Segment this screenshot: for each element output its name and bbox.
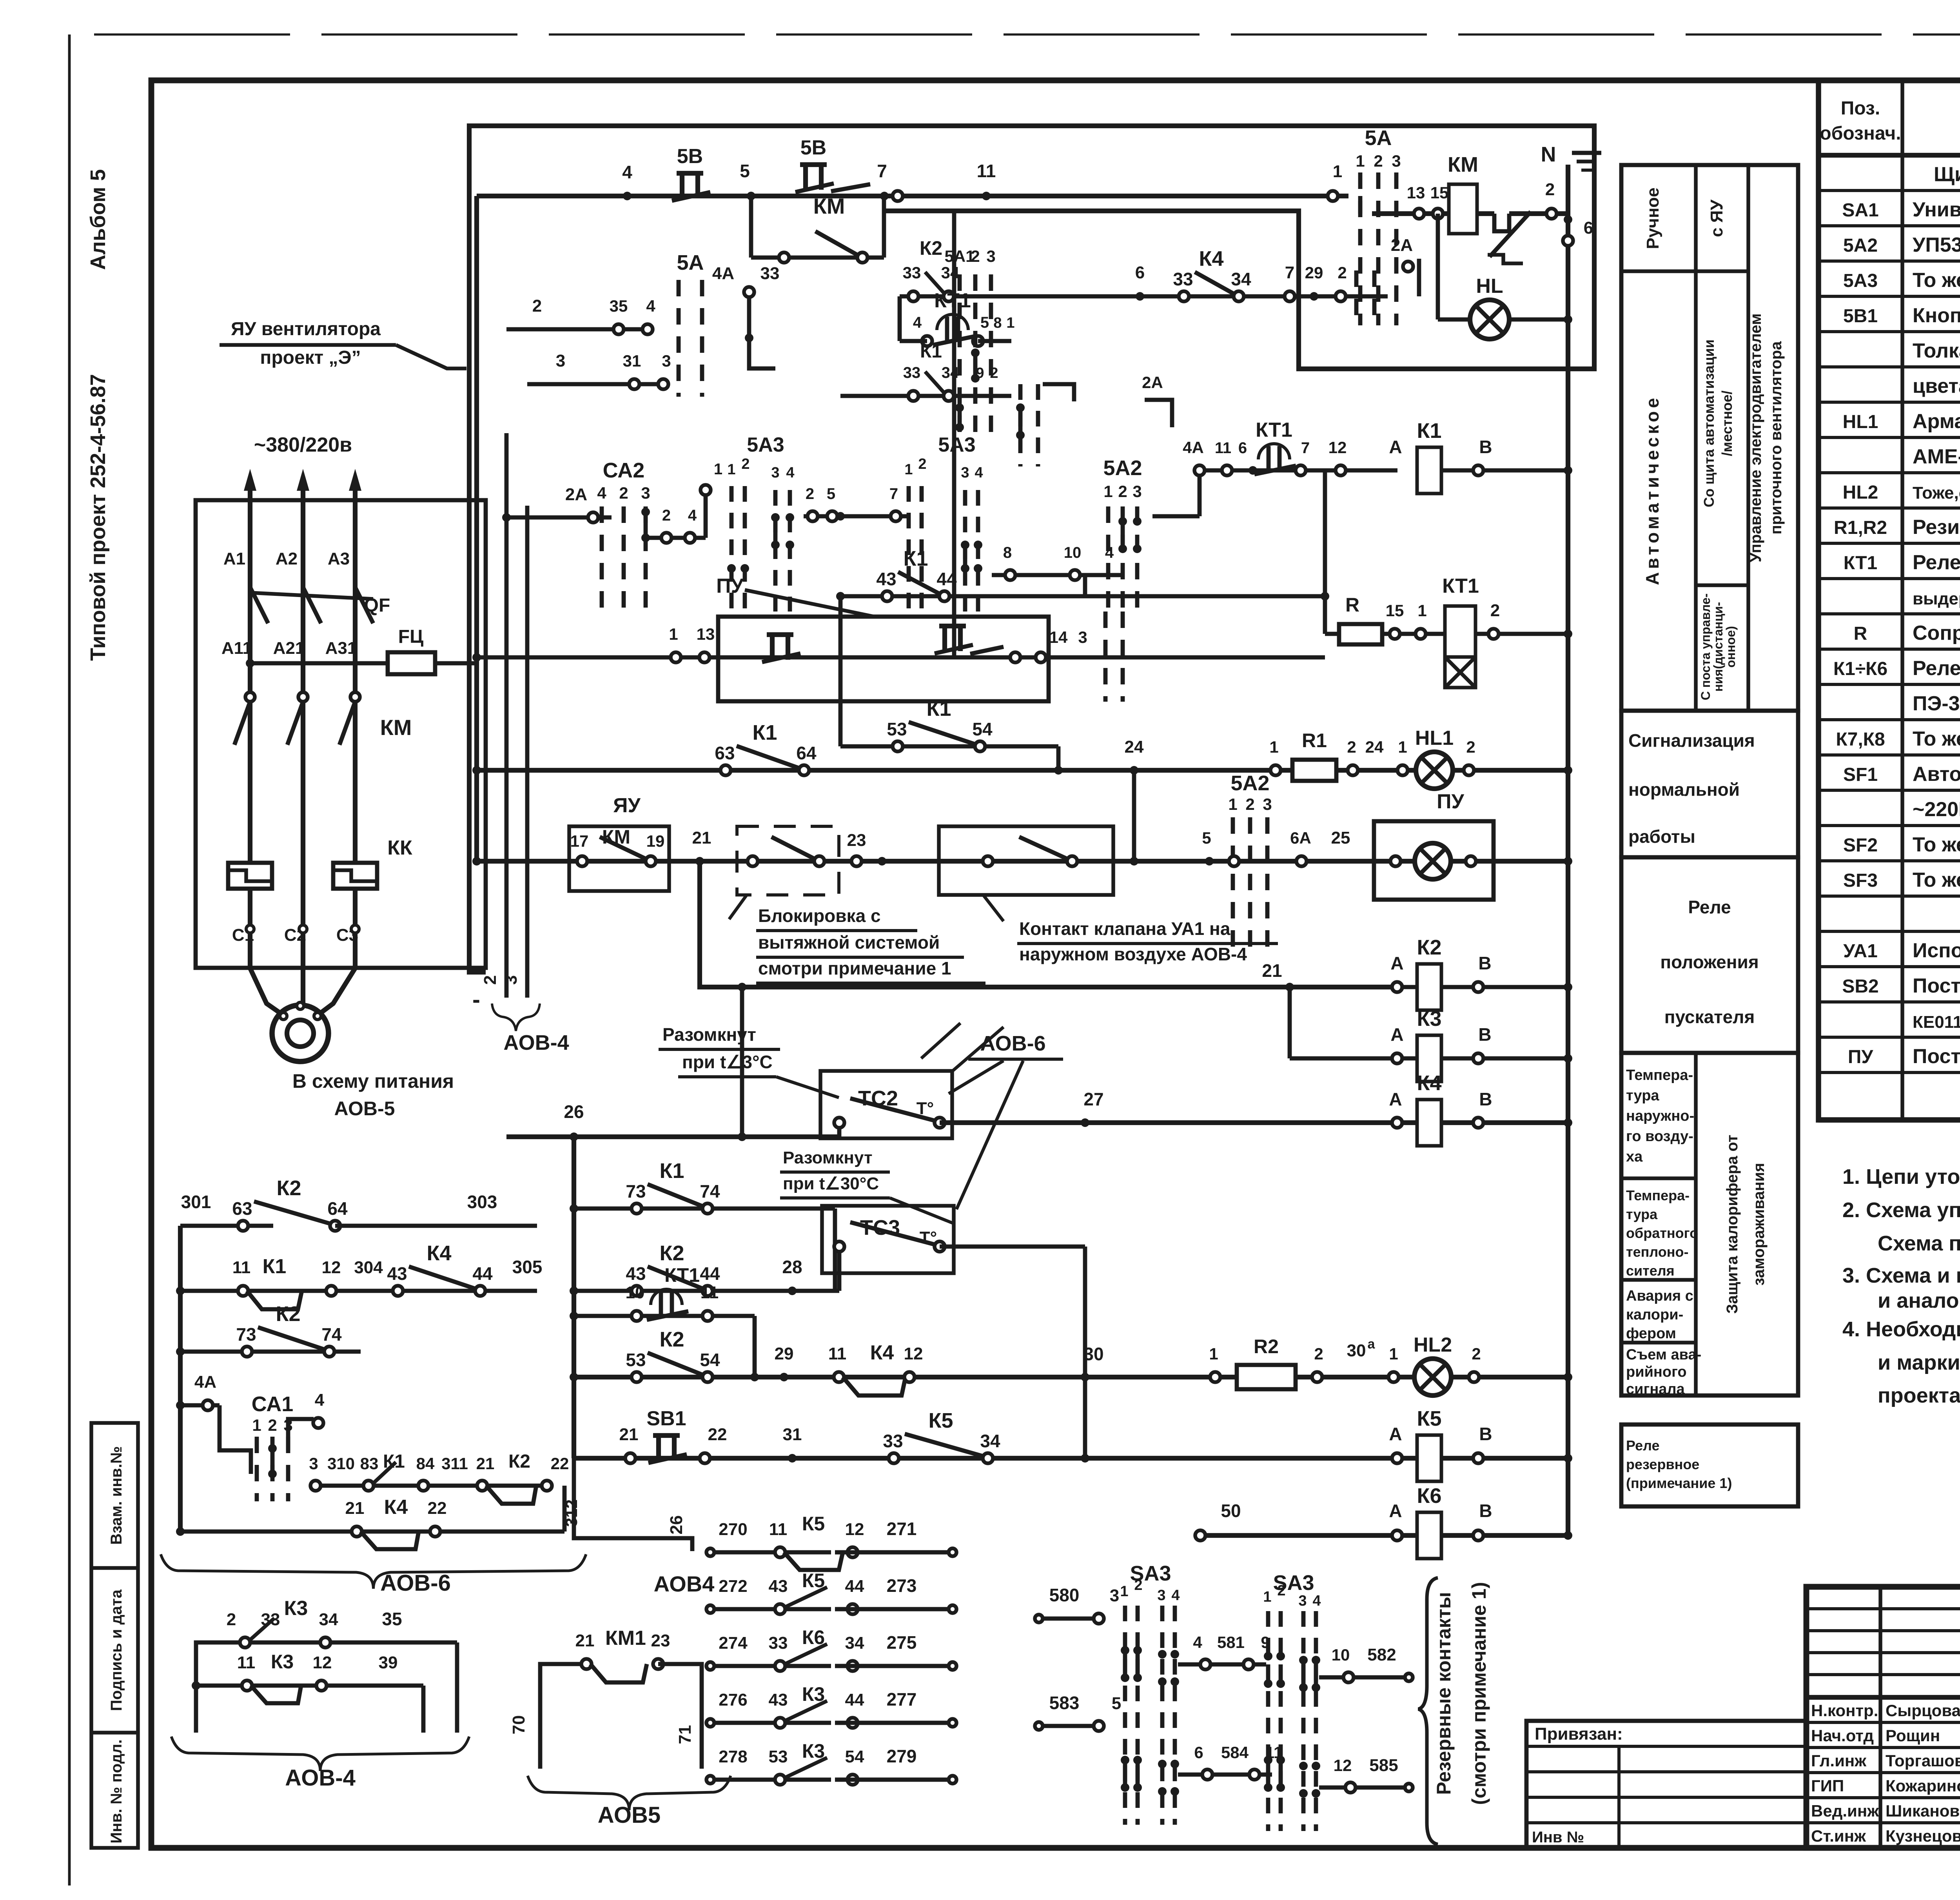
svg-text:Сырцова: Сырцова xyxy=(1886,1701,1960,1720)
svg-text:34: 34 xyxy=(941,263,960,282)
svg-text:12: 12 xyxy=(1328,438,1347,457)
svg-text:2: 2 xyxy=(1277,1582,1285,1599)
svg-text:12: 12 xyxy=(322,1258,341,1277)
svg-text:6А: 6А xyxy=(1290,829,1311,847)
svg-text:АОВ-4: АОВ-4 xyxy=(503,1031,569,1054)
svg-text:4: 4 xyxy=(786,465,794,481)
svg-text:14: 14 xyxy=(1049,628,1068,646)
svg-text:СА2: СА2 xyxy=(603,459,645,482)
svg-text:30: 30 xyxy=(1083,1344,1103,1364)
svg-text:То же, УП5313-А541: То же, УП5313-А541 xyxy=(1913,269,1960,292)
svg-text:54: 54 xyxy=(845,1747,864,1766)
svg-text:ПУ: ПУ xyxy=(716,575,744,597)
svg-text:Толкатель цилиндрический красн: Толкатель цилиндрический красного xyxy=(1913,339,1960,362)
svg-text:27: 27 xyxy=(1083,1089,1103,1109)
svg-text:Блокировка с: Блокировка с xyxy=(758,906,881,926)
svg-text:12: 12 xyxy=(845,1520,864,1539)
svg-text:АМЕ-313211(У2ТУ16.535.582-76: АМЕ-313211(У2ТУ16.535.582-76 xyxy=(1913,445,1960,468)
svg-text:КТ1: КТ1 xyxy=(1442,575,1479,597)
svg-text:43: 43 xyxy=(769,1577,788,1596)
svg-text:1: 1 xyxy=(1333,162,1342,181)
svg-text:К1: К1 xyxy=(263,1255,287,1278)
svg-text:2: 2 xyxy=(918,456,926,472)
svg-text:наружно-: наружно- xyxy=(1626,1108,1694,1124)
svg-text:3: 3 xyxy=(1078,628,1087,646)
svg-text:К2: К2 xyxy=(920,237,942,259)
svg-text:То же , 1,6×10: То же , 1,6×10 xyxy=(1913,833,1960,856)
svg-text:К1: К1 xyxy=(753,721,777,744)
svg-text:2: 2 xyxy=(1545,180,1555,199)
svg-text:5В1: 5В1 xyxy=(1843,306,1878,327)
svg-text:26: 26 xyxy=(667,1515,686,1535)
svg-text:2: 2 xyxy=(1347,738,1356,756)
svg-text:26: 26 xyxy=(564,1102,584,1122)
svg-text:Автоматический выключатель А63: Автоматический выключатель А63МГ xyxy=(1913,763,1960,786)
svg-text:2: 2 xyxy=(662,507,671,524)
svg-text:21: 21 xyxy=(619,1425,639,1444)
svg-text:QF: QF xyxy=(364,595,390,616)
svg-text:HL2: HL2 xyxy=(1843,482,1878,503)
svg-text:7: 7 xyxy=(877,161,887,181)
svg-text:положения: положения xyxy=(1660,952,1759,972)
svg-text:А11: А11 xyxy=(221,639,252,658)
svg-text:К2: К2 xyxy=(1417,936,1442,959)
svg-text:23: 23 xyxy=(651,1631,670,1650)
svg-text:3: 3 xyxy=(1263,795,1272,813)
svg-text:2: 2 xyxy=(1118,482,1127,501)
svg-text:замораживания: замораживания xyxy=(1750,1163,1768,1285)
svg-text:4: 4 xyxy=(646,297,655,315)
svg-text:64: 64 xyxy=(327,1198,348,1219)
svg-text:271: 271 xyxy=(887,1519,917,1539)
svg-text:HL1: HL1 xyxy=(1415,727,1454,749)
svg-text:2: 2 xyxy=(1134,1577,1142,1593)
svg-text:а: а xyxy=(1368,1337,1376,1352)
svg-text:274: 274 xyxy=(719,1633,748,1653)
svg-text:К1: К1 xyxy=(383,1451,405,1472)
svg-text:270: 270 xyxy=(719,1520,747,1539)
svg-text:311: 311 xyxy=(441,1454,468,1473)
svg-text:А: А xyxy=(1389,1424,1402,1444)
svg-text:17: 17 xyxy=(570,832,589,850)
svg-text:Универсальный переключатель: Универсальный переключатель xyxy=(1913,198,1960,221)
svg-text:К1÷К6: К1÷К6 xyxy=(1833,659,1887,679)
svg-text:1: 1 xyxy=(1389,1345,1398,1363)
svg-text:33: 33 xyxy=(883,1431,903,1451)
svg-text:сигнала: сигнала xyxy=(1626,1381,1685,1397)
svg-text:К4: К4 xyxy=(870,1341,894,1364)
svg-text:3: 3 xyxy=(1132,482,1142,501)
svg-text:Сигнализация: Сигнализация xyxy=(1628,730,1755,751)
svg-text:КТ1: КТ1 xyxy=(934,289,971,312)
svg-text:12: 12 xyxy=(1334,1756,1352,1775)
svg-text:Тоже,с красным светофильтром А: Тоже,с красным светофильтром АМЕ-311211У… xyxy=(1913,483,1960,503)
svg-text:Инв №: Инв № xyxy=(1532,1829,1584,1846)
svg-text:Реле: Реле xyxy=(1626,1437,1660,1454)
svg-text:84: 84 xyxy=(416,1454,435,1473)
svg-text:12: 12 xyxy=(313,1653,332,1672)
svg-text:5В: 5В xyxy=(800,136,826,159)
svg-text:15: 15 xyxy=(1430,183,1449,202)
svg-text:5: 5 xyxy=(980,314,989,331)
svg-text:выдержка времени 0,1÷10мин;ТУ1: выдержка времени 0,1÷10мин;ТУ16.647.002-… xyxy=(1913,589,1960,608)
svg-text:35: 35 xyxy=(610,297,628,315)
svg-text:5: 5 xyxy=(740,161,750,181)
svg-text:13: 13 xyxy=(697,625,715,643)
svg-text:А: А xyxy=(1389,1089,1402,1109)
svg-text:43: 43 xyxy=(626,1263,646,1284)
svg-text:К3: К3 xyxy=(271,1651,294,1673)
svg-text:30: 30 xyxy=(1347,1341,1366,1360)
svg-text:12: 12 xyxy=(904,1344,923,1363)
svg-text:3: 3 xyxy=(641,484,650,502)
svg-text:Поз.: Поз. xyxy=(1841,98,1880,119)
svg-text:5В: 5В xyxy=(677,145,703,168)
svg-text:312: 312 xyxy=(562,1499,581,1527)
svg-text:Взам. инв.№: Взам. инв.№ xyxy=(108,1446,125,1544)
svg-text:HL2: HL2 xyxy=(1414,1334,1452,1356)
svg-text:SB2: SB2 xyxy=(1842,976,1878,997)
svg-text:580: 580 xyxy=(1049,1585,1080,1605)
svg-text:5А2: 5А2 xyxy=(1230,771,1269,795)
svg-text:А31: А31 xyxy=(325,639,357,658)
svg-text:Со щита автоматизации: Со щита автоматизации xyxy=(1701,339,1717,507)
svg-text:5А1: 5А1 xyxy=(944,247,975,265)
svg-text:25: 25 xyxy=(1331,828,1350,847)
svg-text:4. Необходимость использовани: 4. Необходимость использования резервных… xyxy=(1842,1317,1960,1341)
svg-text:305: 305 xyxy=(512,1257,543,1277)
svg-text:ПЭ-37-62УЗ ТУ16.523.622-82: ПЭ-37-62УЗ ТУ16.523.622-82 xyxy=(1913,692,1960,715)
svg-text:2А: 2А xyxy=(1391,236,1413,255)
svg-text:Типовой проект 252-4-56.87: Типовой проект 252-4-56.87 xyxy=(86,374,110,661)
svg-text:СА1: СА1 xyxy=(252,1392,294,1416)
svg-text:273: 273 xyxy=(887,1575,917,1596)
svg-text:34: 34 xyxy=(942,364,959,381)
svg-text:К5: К5 xyxy=(802,1513,825,1535)
svg-text:Подпись и дата: Подпись и дата xyxy=(108,1589,125,1711)
svg-text:31: 31 xyxy=(783,1425,802,1444)
svg-text:4: 4 xyxy=(1193,1633,1202,1651)
svg-text:278: 278 xyxy=(719,1747,747,1766)
svg-text:ГИП: ГИП xyxy=(1811,1777,1844,1795)
svg-text:SB1: SB1 xyxy=(646,1407,686,1430)
svg-text:КЕ011 исп.2 „Открыть”,Закрыть”: КЕ011 исп.2 „Открыть”,Закрыть”ф¾,ТУ16.52… xyxy=(1913,1013,1960,1032)
svg-text:21: 21 xyxy=(1262,960,1282,981)
svg-text:FЦ: FЦ xyxy=(398,626,423,647)
svg-text:11: 11 xyxy=(828,1344,847,1363)
svg-text:5: 5 xyxy=(827,485,835,503)
svg-text:34: 34 xyxy=(1231,269,1251,289)
svg-text:КМ: КМ xyxy=(813,194,845,218)
svg-text:К4: К4 xyxy=(384,1496,408,1519)
svg-text:1: 1 xyxy=(714,461,722,478)
svg-text:310: 310 xyxy=(327,1454,355,1473)
svg-text:11: 11 xyxy=(769,1520,788,1539)
svg-text:1: 1 xyxy=(904,461,913,478)
svg-text:3: 3 xyxy=(501,975,521,985)
svg-text:-: - xyxy=(472,986,480,1013)
svg-text:582: 582 xyxy=(1367,1645,1396,1664)
svg-text:1: 1 xyxy=(1398,738,1407,756)
svg-text:2: 2 xyxy=(1338,263,1347,282)
svg-text:С поста управле-: С поста управле- xyxy=(1699,593,1713,700)
svg-text:11: 11 xyxy=(1215,439,1231,457)
svg-text:5А: 5А xyxy=(677,251,704,274)
svg-text:63: 63 xyxy=(232,1198,252,1219)
svg-text:301: 301 xyxy=(181,1192,211,1212)
svg-text:585: 585 xyxy=(1369,1756,1398,1775)
svg-text:резервное: резервное xyxy=(1626,1456,1699,1472)
svg-text:74: 74 xyxy=(321,1324,342,1345)
svg-text:Кожаринова: Кожаринова xyxy=(1886,1777,1960,1795)
svg-text:(смотри примечание 1): (смотри примечание 1) xyxy=(1468,1582,1490,1805)
svg-text:(примечание 1): (примечание 1) xyxy=(1626,1475,1732,1491)
svg-text:272: 272 xyxy=(719,1577,747,1596)
svg-text:АОВ-6: АОВ-6 xyxy=(980,1032,1045,1055)
svg-text:34: 34 xyxy=(980,1431,1000,1451)
svg-text:34: 34 xyxy=(845,1633,864,1653)
svg-text:В: В xyxy=(1478,1024,1491,1045)
svg-text:при t∠3°С: при t∠3°С xyxy=(682,1052,773,1072)
svg-text:К2: К2 xyxy=(276,1302,301,1326)
svg-text:2: 2 xyxy=(741,456,750,472)
svg-text:44: 44 xyxy=(472,1263,493,1284)
svg-text:34: 34 xyxy=(319,1610,338,1629)
svg-text:21: 21 xyxy=(476,1454,495,1473)
svg-text:1: 1 xyxy=(1417,601,1426,620)
svg-text:То же , 1×10: То же , 1×10 xyxy=(1913,869,1960,891)
svg-text:70: 70 xyxy=(509,1715,528,1735)
svg-text:работы: работы xyxy=(1628,826,1695,847)
svg-text:7: 7 xyxy=(889,485,898,503)
svg-text:К1: К1 xyxy=(660,1159,684,1183)
svg-text:33: 33 xyxy=(903,263,921,282)
svg-text:29: 29 xyxy=(1305,263,1323,282)
svg-text:АОВ4: АОВ4 xyxy=(654,1572,715,1596)
svg-text:К5: К5 xyxy=(802,1570,825,1591)
svg-text:35: 35 xyxy=(382,1609,402,1629)
svg-text:R2: R2 xyxy=(1254,1336,1279,1357)
svg-text:2: 2 xyxy=(619,484,628,502)
svg-text:А: А xyxy=(1389,437,1402,457)
svg-text:К4: К4 xyxy=(427,1241,452,1265)
svg-text:К7,К8: К7,К8 xyxy=(1836,729,1885,750)
svg-text:2. Схема управления дана на: 2. Схема управления дана на листах АОВ3÷… xyxy=(1842,1198,1960,1222)
svg-text:Авария с: Авария с xyxy=(1626,1288,1693,1304)
svg-text:Н.контр.: Н.контр. xyxy=(1811,1701,1878,1720)
svg-text:11: 11 xyxy=(701,1283,719,1302)
svg-text:5А3: 5А3 xyxy=(938,434,975,456)
svg-text:ния(дистанци-: ния(дистанци- xyxy=(1711,602,1725,692)
svg-text:Управление электродвигателем: Управление электродвигателем xyxy=(1747,313,1764,562)
svg-text:~380/220в: ~380/220в xyxy=(254,434,352,456)
svg-text:5А: 5А xyxy=(1365,126,1392,150)
svg-text:АОВ-5: АОВ-5 xyxy=(334,1098,395,1120)
svg-text:R: R xyxy=(1345,594,1359,616)
svg-text:44: 44 xyxy=(936,569,957,589)
svg-text:HL1: HL1 xyxy=(1843,412,1878,432)
svg-text:ЯУ: ЯУ xyxy=(613,794,641,817)
svg-text:3: 3 xyxy=(961,465,969,481)
svg-text:1: 1 xyxy=(252,1416,261,1434)
svg-text:43: 43 xyxy=(769,1690,788,1709)
svg-text:2А: 2А xyxy=(565,485,587,504)
svg-text:2: 2 xyxy=(1374,152,1383,170)
svg-text:5: 5 xyxy=(1202,829,1211,847)
svg-text:УП5312-С86 ТУ16.524.074-75: УП5312-С86 ТУ16.524.074-75 xyxy=(1913,234,1960,256)
svg-text:проект „Э”: проект „Э” xyxy=(260,347,361,368)
svg-text:73: 73 xyxy=(626,1181,646,1201)
svg-text:Привязан:: Привязан: xyxy=(1535,1724,1623,1744)
svg-text:К1: К1 xyxy=(904,547,928,570)
svg-text:К4: К4 xyxy=(1417,1071,1442,1095)
svg-text:8: 8 xyxy=(993,315,1002,331)
svg-text:SF2: SF2 xyxy=(1843,835,1878,856)
svg-text:А3: А3 xyxy=(328,549,350,568)
svg-text:6: 6 xyxy=(1135,263,1145,282)
svg-text:К2: К2 xyxy=(660,1328,684,1351)
svg-text:4А: 4А xyxy=(1183,438,1204,457)
svg-text:63: 63 xyxy=(715,743,735,763)
svg-text:приточного вентилятора: приточного вентилятора xyxy=(1768,341,1785,535)
svg-text:5: 5 xyxy=(1112,1694,1121,1713)
svg-text:64: 64 xyxy=(796,743,817,763)
svg-text:50: 50 xyxy=(1221,1501,1241,1521)
svg-text:В: В xyxy=(1479,1089,1492,1109)
svg-text:К1: К1 xyxy=(1417,419,1442,443)
svg-text:7: 7 xyxy=(1301,439,1310,457)
svg-text:Торгашов: Торгашов xyxy=(1886,1751,1960,1770)
svg-text:и аналогичны для П2÷П4.: и аналогичны для П2÷П4. xyxy=(1878,1289,1960,1312)
svg-text:10: 10 xyxy=(626,1283,645,1302)
svg-text:4: 4 xyxy=(1171,1587,1180,1604)
svg-text:Автоматическое: Автоматическое xyxy=(1642,395,1662,585)
svg-text:В: В xyxy=(1478,953,1491,973)
svg-text:К2: К2 xyxy=(277,1176,301,1200)
svg-text:54: 54 xyxy=(972,719,993,739)
svg-text:4: 4 xyxy=(597,484,606,502)
svg-text:6: 6 xyxy=(1238,439,1247,457)
svg-text:5А2: 5А2 xyxy=(1103,456,1142,480)
svg-text:~220В 4×10 ТУ16.522.110-74: ~220В 4×10 ТУ16.522.110-74 xyxy=(1913,798,1960,821)
svg-text:22: 22 xyxy=(551,1454,569,1473)
svg-text:43: 43 xyxy=(876,569,896,589)
svg-text:К6: К6 xyxy=(802,1626,825,1648)
svg-text:HL: HL xyxy=(1476,275,1503,298)
svg-text:5А2: 5А2 xyxy=(1843,235,1878,256)
svg-text:Щит автоматизации ЩА-П1(П2÷П4): Щит автоматизации ЩА-П1(П2÷П4) xyxy=(1934,163,1960,186)
svg-text:43: 43 xyxy=(387,1263,407,1284)
svg-text:7: 7 xyxy=(1285,263,1294,282)
svg-text:рийного: рийного xyxy=(1626,1364,1687,1380)
svg-text:4: 4 xyxy=(315,1390,325,1410)
svg-text:1: 1 xyxy=(1103,482,1112,501)
svg-text:5А3: 5А3 xyxy=(1843,270,1878,291)
svg-text:А2: А2 xyxy=(276,549,298,568)
svg-text:Пост управления ПКЕ-212-2УЗ,с: Пост управления ПКЕ-212-2УЗ,с кнопками xyxy=(1913,974,1960,997)
svg-text:КМ1: КМ1 xyxy=(605,1627,646,1650)
svg-text:Защита калорифера от: Защита калорифера от xyxy=(1724,1135,1741,1314)
svg-text:ха: ха xyxy=(1626,1149,1643,1165)
svg-text:Резервные контакты: Резервные контакты xyxy=(1433,1592,1455,1795)
svg-text:44: 44 xyxy=(845,1577,864,1596)
svg-text:SF1: SF1 xyxy=(1843,764,1878,785)
svg-text:Шиканова: Шиканова xyxy=(1886,1802,1960,1820)
svg-text:304: 304 xyxy=(354,1258,383,1277)
svg-text:К2: К2 xyxy=(508,1451,530,1472)
svg-text:10: 10 xyxy=(1064,544,1082,561)
svg-text:1: 1 xyxy=(1120,1583,1128,1600)
svg-text:смотри примечание 1: смотри примечание 1 xyxy=(758,958,951,978)
svg-text:584: 584 xyxy=(1221,1743,1249,1762)
svg-text:21: 21 xyxy=(575,1631,595,1650)
svg-text:3: 3 xyxy=(1392,152,1401,170)
svg-text:при t∠30°С: при t∠30°С xyxy=(783,1174,879,1193)
svg-text:23: 23 xyxy=(847,831,866,850)
svg-text:К3: К3 xyxy=(1417,1007,1442,1031)
svg-text:го возду-: го возду- xyxy=(1626,1128,1693,1145)
svg-text:28: 28 xyxy=(782,1257,802,1277)
svg-text:10: 10 xyxy=(1332,1646,1350,1664)
svg-text:К6: К6 xyxy=(1417,1484,1442,1508)
svg-text:1: 1 xyxy=(1209,1345,1218,1363)
svg-text:SF3: SF3 xyxy=(1843,870,1878,891)
svg-text:пускателя: пускателя xyxy=(1664,1007,1755,1027)
svg-text:Сопротивление: Сопротивление xyxy=(1913,622,1960,644)
svg-text:33: 33 xyxy=(1173,269,1193,289)
svg-text:теплоно-: теплоно- xyxy=(1626,1244,1689,1260)
svg-text:4А: 4А xyxy=(712,264,734,283)
svg-text:54: 54 xyxy=(700,1350,720,1370)
svg-text:А: А xyxy=(1390,1024,1403,1045)
svg-text:Гл.инж: Гл.инж xyxy=(1811,1751,1867,1770)
svg-text:11: 11 xyxy=(232,1258,251,1277)
svg-text:R1: R1 xyxy=(1302,730,1327,751)
svg-text:Контакт клапана УА1 на: Контакт клапана УА1 на xyxy=(1019,918,1230,939)
svg-text:К1: К1 xyxy=(920,341,942,362)
svg-text:2: 2 xyxy=(806,485,814,503)
svg-text:8: 8 xyxy=(1003,544,1012,561)
svg-text:22: 22 xyxy=(708,1425,727,1444)
svg-text:фером: фером xyxy=(1626,1325,1676,1342)
svg-text:сителя: сителя xyxy=(1626,1263,1675,1279)
svg-text:Схема питания л. АОВ-5.: Схема питания л. АОВ-5. xyxy=(1878,1232,1960,1255)
svg-text:53: 53 xyxy=(769,1747,788,1766)
svg-text:Реле: Реле xyxy=(1688,897,1731,917)
svg-text:71: 71 xyxy=(675,1725,695,1744)
svg-text:КМ: КМ xyxy=(1448,153,1478,176)
svg-text:К5: К5 xyxy=(929,1409,953,1432)
svg-text:24: 24 xyxy=(1365,738,1384,756)
svg-text:обратного: обратного xyxy=(1626,1225,1698,1241)
svg-text:R1,R2: R1,R2 xyxy=(1834,517,1887,538)
svg-text:21: 21 xyxy=(692,828,711,847)
svg-text:33: 33 xyxy=(903,364,921,381)
svg-text:2: 2 xyxy=(532,296,542,316)
svg-text:/местное/: /местное/ xyxy=(1719,390,1735,456)
svg-text:4: 4 xyxy=(913,314,922,331)
svg-text:1: 1 xyxy=(727,461,735,478)
svg-text:2: 2 xyxy=(481,975,500,985)
svg-text:калори-: калори- xyxy=(1626,1307,1683,1323)
svg-text:Кнопка управления КЕ-011 исп.2: Кнопка управления КЕ-011 исп.2 xyxy=(1913,304,1960,327)
svg-text:2: 2 xyxy=(1490,601,1500,620)
svg-text:1: 1 xyxy=(1263,1589,1271,1605)
svg-text:Исполнительный механизм: Исполнительный механизм xyxy=(1913,939,1960,962)
svg-text:Реле времени ВЛ-56 ~220в 50Гц: Реле времени ВЛ-56 ~220в 50Гц; xyxy=(1913,551,1960,574)
svg-text:В: В xyxy=(1479,1424,1492,1444)
svg-text:тура: тура xyxy=(1626,1206,1658,1222)
